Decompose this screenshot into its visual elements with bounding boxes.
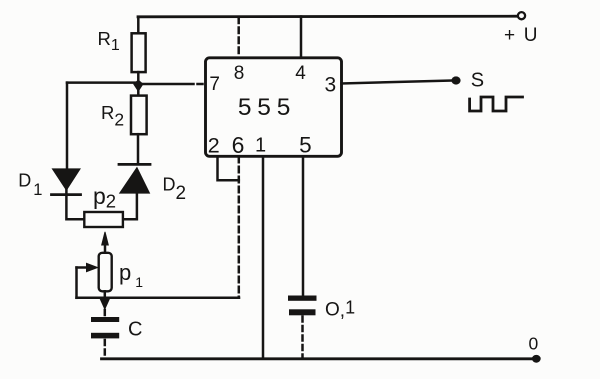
wire P1 wiper arrow [77,263,98,271]
wire wiper line to pin 6 column [77,297,240,300]
svg-text:4: 4 [295,63,306,84]
svg-text:+ U: + U [504,25,539,46]
svg-text:C: C [128,319,142,341]
svg-text:7: 7 [209,74,220,95]
svg-text:S: S [471,69,484,91]
svg-text:8: 8 [234,63,245,84]
diode D1 [52,169,81,194]
svg-text:1: 1 [255,135,266,157]
potentiometer P1 [99,253,112,291]
svg-text:3: 3 [325,74,337,97]
capacitor 0,1 [288,296,317,316]
wire D1 to P2 left [66,190,85,220]
svg-text:6: 6 [232,132,245,158]
wire ground rail 0 [102,357,534,360]
wire P1 bottom to junction [104,291,107,297]
wire dashed 0,1 to ground rail [301,317,304,359]
wire dashed junction to C [104,310,107,317]
square wave symbol [470,97,523,111]
wire R2 bottom to D2 [137,134,140,163]
wire junction to R2 top [137,88,140,96]
wire junction to left branch [67,81,138,84]
wire pin 7 dash before chip [198,83,203,86]
wire P2 wiper arrow to P1 top [102,232,109,253]
wire pin 1 to ground rail [262,157,265,359]
wire R1 top to rail [137,17,140,34]
resistor R1 [132,33,146,72]
wire pin 6 dashed column [238,157,241,298]
potentiometer P2 [84,212,123,227]
wire P1 wiper left vertical [75,268,78,298]
wire pin 4 to rail [300,17,303,58]
wire R1 bottom to junction [137,72,140,83]
resistor R2 [131,96,147,135]
wire pin 3 output [342,81,452,84]
node junction below R1 (pin 7 node) [133,80,143,93]
svg-text:0: 0 [529,334,539,354]
wire left vertical down to D1 [66,83,69,169]
wire pin 5 to 0,1 capacitor [302,157,305,296]
wire pin 8 dashed to rail [237,18,240,58]
svg-text:555: 555 [238,94,296,121]
wire dashed C to ground rail [104,340,107,358]
wire top +U rail [138,15,517,18]
wire junction to pin 7 [139,83,194,86]
wire D2 to P2 right [122,193,137,220]
wire pin 2 stub [218,157,239,181]
svg-text:2: 2 [208,134,220,158]
node arrow down to C [101,300,110,310]
node +U terminal (open circle) [518,12,525,19]
capacitor C [91,317,119,338]
op-amp U1: 555 timer chip body [206,58,342,157]
svg-text:5: 5 [299,133,312,158]
diode D2 [119,164,150,192]
node S terminal dot [451,76,460,84]
node ground rail end dot [532,355,541,363]
